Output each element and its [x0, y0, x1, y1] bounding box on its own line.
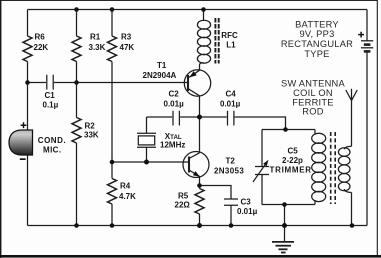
text antenna coil note — [281, 78, 346, 116]
svg-text:R1: R1 — [90, 33, 101, 42]
wire battery column — [366, 10, 368, 226]
wire T1 base (mic/C1 to T1) — [28, 82, 189, 84]
svg-text:RFC: RFC — [221, 31, 238, 40]
svg-text:T1: T1 — [157, 61, 167, 70]
svg-text:C1: C1 — [45, 91, 56, 100]
svg-text:2N3053: 2N3053 — [214, 166, 244, 175]
svg-text:RECTANGULAR: RECTANGULAR — [281, 39, 353, 49]
resistor R5 — [175, 189, 205, 215]
node C5 box bottom / ground junction — [282, 202, 287, 207]
transistor T1 2N2904A (PNP) — [143, 61, 211, 96]
node ground rail / R4 junction — [110, 223, 115, 228]
svg-text:0.01µ: 0.01µ — [237, 207, 258, 216]
wire C5 box top edge — [262, 129, 315, 131]
antenna — [346, 89, 357, 101]
svg-text:4.7K: 4.7K — [119, 192, 136, 201]
svg-text:12MHz: 12MHz — [160, 140, 185, 149]
transformer primary coil (antenna coil) — [312, 130, 326, 205]
capacitor C2 — [164, 89, 185, 125]
resistor R4 — [108, 179, 137, 205]
svg-text:BATTERY: BATTERY — [295, 20, 339, 30]
svg-text:33K: 33K — [84, 130, 99, 139]
node R3 / R4 / T2 base junction — [110, 160, 115, 165]
capacitor C1 — [43, 75, 59, 110]
node ground rail / C3 junction — [229, 223, 234, 228]
transformer core (ferrite rod) — [331, 132, 336, 204]
resistor R2 — [72, 118, 99, 144]
svg-text:22Ω: 22Ω — [175, 200, 191, 209]
wire C5 box bottom edge — [262, 204, 315, 206]
resistor R6 — [23, 33, 48, 62]
svg-text:C4: C4 — [226, 89, 237, 98]
svg-text:3.3K: 3.3K — [89, 43, 106, 52]
wire T2 base row — [112, 161, 189, 163]
svg-text:47K: 47K — [120, 43, 135, 52]
svg-text:C5: C5 — [288, 147, 299, 156]
svg-text:2-22p: 2-22p — [282, 156, 303, 165]
node V+ rail / RFC junction — [201, 7, 206, 12]
svg-text:ROD: ROD — [302, 107, 323, 117]
svg-text:MIC.: MIC. — [43, 145, 62, 154]
node R1 / R2 / C1 junction — [74, 80, 79, 85]
ground — [272, 242, 294, 253]
node V+ rail / R3 junction — [110, 7, 115, 12]
svg-text:R5: R5 — [178, 192, 189, 201]
node ground rail / R2 junction — [74, 223, 79, 228]
crystal X1 12MHz — [137, 132, 185, 149]
svg-text:SW ANTENNA: SW ANTENNA — [281, 78, 346, 88]
svg-text:22K: 22K — [34, 43, 49, 52]
wire antenna column — [351, 101, 353, 226]
node V+ rail / R1 junction — [74, 7, 79, 12]
svg-text:R4: R4 — [120, 182, 131, 191]
wire R1/R2 column — [76, 10, 78, 226]
inductor RFC L1 — [197, 10, 238, 64]
wire C2/C4 row — [147, 117, 286, 130]
transistor T2 2N3053 (NPN) — [183, 152, 244, 178]
node C4 / C5 box top junction — [283, 127, 288, 132]
wire ground column — [284, 205, 286, 242]
svg-text:C3: C3 — [241, 198, 252, 207]
svg-text:R3: R3 — [121, 33, 132, 42]
trimmer capacitor C5 — [253, 147, 312, 183]
svg-text:2N2904A: 2N2904A — [143, 71, 177, 80]
svg-text:0.01µ: 0.01µ — [164, 99, 185, 108]
wire C3 bottom lead — [230, 205, 232, 225]
capacitor C3 — [224, 198, 258, 217]
svg-text:TRIMMER: TRIMMER — [270, 166, 312, 175]
svg-text:0.01µ: 0.01µ — [220, 99, 241, 108]
resistor R3 — [108, 33, 135, 62]
condenser microphone — [9, 122, 66, 160]
transformer secondary coil — [338, 146, 351, 192]
wire T1 collector to T2 collector — [199, 96, 201, 153]
svg-text:L1: L1 — [226, 41, 236, 50]
svg-text:TYPE: TYPE — [304, 49, 329, 59]
node ground rail / earth junction — [282, 223, 287, 228]
resistor R1 — [72, 33, 106, 62]
node T2 emitter / R5 / C3 junction — [197, 183, 202, 188]
svg-text:T2: T2 — [226, 157, 236, 166]
svg-text:COIL ON: COIL ON — [293, 88, 333, 98]
capacitor C4 — [220, 89, 241, 125]
wire left column (R6 / mic branch) — [27, 10, 29, 226]
wire bottom rail — [28, 225, 368, 227]
wire top rail — [28, 9, 368, 11]
svg-text:C2: C2 — [169, 89, 180, 98]
wire XTAL column — [146, 117, 148, 162]
battery 9V PP3 — [358, 32, 373, 52]
svg-text:COND.: COND. — [38, 136, 66, 145]
node mic / C1 junction — [25, 80, 30, 85]
text battery note — [281, 20, 353, 59]
svg-text:0.1µ: 0.1µ — [43, 101, 59, 110]
node XTAL / T2 base junction — [144, 160, 149, 165]
node T1 collector / C2 / C4 junction — [197, 115, 202, 120]
wire C5 box left edge — [261, 130, 263, 205]
node ground rail / R5 junction — [197, 223, 202, 228]
wire R3/R4 column — [111, 10, 113, 226]
wire T2 emitter / R5 / C3 row — [200, 177, 232, 226]
svg-text:9V, PP3: 9V, PP3 — [299, 29, 334, 39]
svg-text:R2: R2 — [85, 121, 96, 130]
svg-text:R6: R6 — [35, 33, 46, 42]
node ground rail / secondary coil junction — [350, 223, 355, 228]
